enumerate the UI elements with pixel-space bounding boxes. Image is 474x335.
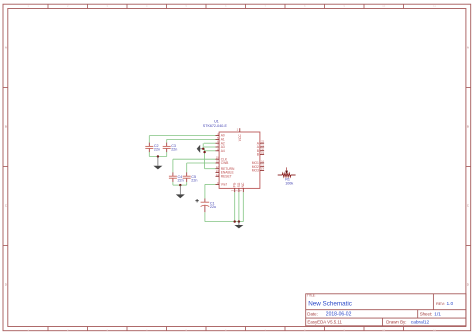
- wire C1 bottom vertical: [204, 212, 206, 221]
- junction dot C2/C3 gnd: [157, 155, 159, 157]
- svg-text:TITLE:: TITLE:: [307, 294, 316, 298]
- wire C1 top vertical: [204, 184, 206, 198]
- svg-text:D: D: [5, 283, 7, 287]
- wire C5 top vertical: [186, 163, 188, 173]
- svg-text:U1: U1: [214, 119, 219, 123]
- U1 left pins group1 A0-A4: [216, 136, 220, 151]
- wire C4 bottom vertical: [172, 182, 174, 185]
- svg-text:A: A: [5, 46, 7, 50]
- svg-text:22n: 22n: [154, 148, 160, 152]
- U1 left pin numbers group1: [217, 134, 219, 151]
- U1 right pins MOI1-3: [260, 163, 264, 171]
- wire pin A0 row: [149, 135, 215, 137]
- svg-text:1.0: 1.0: [447, 301, 454, 307]
- wire C4 top vertical: [172, 159, 174, 172]
- svg-text:Date:: Date:: [307, 312, 318, 317]
- U1 bottom pins: [235, 188, 244, 192]
- svg-text:Drawn By:: Drawn By:: [386, 320, 406, 325]
- wire bottom pin3 vertical: [242, 192, 244, 221]
- U1 pin VCC (top): [237, 128, 242, 142]
- svg-text:22n: 22n: [178, 179, 184, 183]
- wire Vref row: [205, 183, 216, 185]
- capacitor C3: [163, 143, 178, 153]
- svg-text:D: D: [467, 283, 469, 287]
- capacitor C2: [145, 143, 160, 153]
- junction dot A4 row: [203, 151, 205, 153]
- wire CWB row: [187, 162, 216, 164]
- capacitor C4: [169, 172, 184, 182]
- ground left-pointing at mode pins: [197, 145, 204, 153]
- U1 right pins A A B B: [260, 143, 264, 154]
- U1 pin Vref: [216, 183, 227, 187]
- ground under C4/C5: [176, 185, 185, 198]
- resistor R1 potentiometer: [278, 167, 296, 185]
- svg-text:EasyEDA V5.5.11: EasyEDA V5.5.11: [307, 319, 342, 324]
- ground under C2/C3: [153, 157, 162, 170]
- svg-text:NC: NC: [241, 182, 245, 187]
- junction dot mode gnd: [202, 148, 204, 150]
- junction dot C4/C5 gnd: [179, 184, 181, 186]
- wire junction vertical upper: [203, 143, 204, 149]
- U1 pins RETURN ENABLE RESET: [216, 169, 220, 177]
- ground bottom: [234, 222, 243, 229]
- svg-text:1/1: 1/1: [434, 311, 441, 317]
- svg-text:22n: 22n: [191, 179, 197, 183]
- wire C2-C3 ground bus: [149, 156, 166, 158]
- wire CLK row: [173, 158, 216, 160]
- wire pin A4 row: [204, 150, 216, 152]
- junction dot bottom1: [234, 220, 236, 222]
- svg-text:New Schematic: New Schematic: [308, 300, 352, 307]
- svg-text:A4: A4: [221, 149, 225, 153]
- svg-text:100k: 100k: [285, 181, 293, 185]
- svg-text:MO3: MO3: [252, 169, 259, 173]
- svg-text:Vref: Vref: [221, 183, 227, 187]
- wire bottom ground bus: [205, 221, 243, 223]
- wire C2 top vertical: [148, 136, 150, 143]
- svg-text:2018-06-02: 2018-06-02: [326, 312, 352, 318]
- wire junction vertical to RETURN: [204, 149, 206, 169]
- wire pin A3 row: [204, 146, 216, 148]
- wire C3 bottom vertical: [166, 152, 168, 157]
- capacitor C5: [183, 172, 198, 182]
- svg-text:VCC: VCC: [238, 134, 242, 142]
- svg-text:REV:: REV:: [436, 301, 445, 306]
- svg-text:B: B: [467, 125, 469, 129]
- wire pin A1 row: [167, 138, 216, 140]
- wire bottom pin1 vertical: [234, 192, 236, 221]
- svg-text:Sheet:: Sheet:: [420, 311, 433, 316]
- wire bottom pin2 vertical: [238, 192, 240, 221]
- U1 left pin names A0-A4: [221, 134, 225, 153]
- junction dot bottom2: [238, 220, 240, 222]
- U1 pins CLK CWB: [216, 159, 220, 163]
- svg-text:C: C: [5, 204, 7, 208]
- svg-text:STK672-040-E: STK672-040-E: [203, 124, 228, 128]
- wire pin A2 row: [204, 142, 216, 144]
- wire RETURN row: [205, 168, 216, 170]
- wire C3 top vertical: [166, 139, 168, 142]
- IC U1 STK672-040-E: [203, 119, 260, 188]
- svg-text:CWB: CWB: [221, 161, 229, 165]
- svg-text:B: B: [5, 125, 7, 129]
- svg-text:A: A: [467, 46, 469, 50]
- wire C2 bottom vertical: [148, 152, 150, 157]
- svg-text:C: C: [467, 204, 469, 208]
- svg-text:22u: 22u: [210, 205, 216, 209]
- svg-text:RESET: RESET: [221, 174, 232, 178]
- svg-text:cabral12: cabral12: [411, 319, 430, 325]
- capacitor C1 polarized: [195, 199, 216, 213]
- wire C4-C5 ground bus: [173, 184, 187, 186]
- svg-text:22n: 22n: [171, 148, 177, 152]
- wire C5 bottom vertical: [186, 182, 188, 185]
